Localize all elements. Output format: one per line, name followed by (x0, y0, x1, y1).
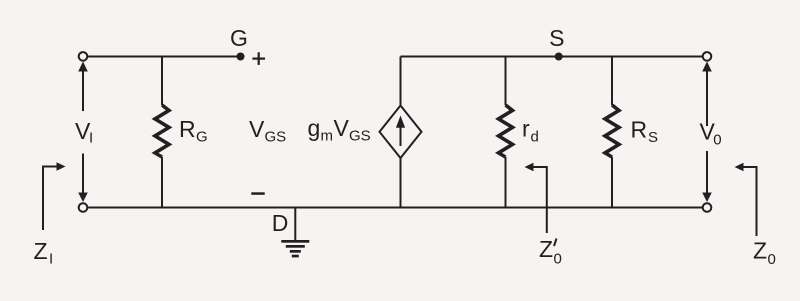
terminal output bottom (703, 203, 712, 212)
svg-text:V: V (249, 116, 265, 142)
label R_G (179, 116, 208, 146)
minus sign (251, 192, 264, 195)
plus sign (252, 52, 265, 65)
V_I arrow upper shaft (82, 70, 84, 111)
label V_I (75, 118, 93, 147)
svg-text:Z: Z (34, 238, 48, 264)
current source diamond gmVGS (380, 106, 422, 159)
terminal input top (79, 52, 88, 61)
wire top-left rail (gate) (83, 56, 241, 58)
V_I arrow lower shaft (82, 154, 84, 195)
wire R_G bottom stub (161, 157, 163, 208)
V_I arrow down head (78, 193, 88, 203)
svg-text:R: R (179, 116, 196, 142)
V_0 arrow upper shaft (706, 70, 708, 126)
label V_GS (249, 116, 286, 146)
svg-text:0: 0 (554, 251, 562, 268)
wire ground stem (294, 208, 296, 242)
svg-text:0: 0 (713, 132, 721, 149)
svg-text:r: r (522, 116, 530, 142)
svg-text:GS: GS (349, 128, 371, 145)
svg-text:V: V (334, 115, 350, 141)
resistor RS zigzag (605, 105, 619, 157)
svg-text:R: R (631, 117, 648, 143)
wire r_d top stub (505, 57, 507, 106)
label Z_I (34, 238, 54, 268)
svg-text:D: D (272, 210, 289, 236)
wire R_G top stub (161, 57, 163, 106)
wire R_S bottom stub (611, 157, 613, 208)
svg-text:0: 0 (768, 251, 776, 268)
wire top-right rail (source) (401, 56, 704, 58)
Z_I probe arrow (43, 162, 66, 230)
node G dot (237, 53, 245, 61)
wire r_d bottom stub (505, 157, 507, 208)
V_I arrow up head (78, 62, 88, 72)
wire R_S top stub (611, 57, 613, 106)
V_0 arrow up head (702, 62, 712, 72)
Z_0 probe arrow (735, 163, 757, 236)
wire bottom rail (drain/common) (83, 207, 703, 209)
label g_m V_GS (308, 115, 371, 145)
svg-text:I: I (89, 130, 93, 147)
current source arrow (396, 116, 405, 147)
svg-text:m: m (321, 128, 334, 145)
label Z'_0 (539, 236, 562, 268)
node S dot (555, 53, 563, 61)
Z'_0 probe arrow (525, 163, 547, 233)
svg-text:I: I (49, 251, 53, 268)
svg-text:g: g (308, 115, 321, 141)
svg-text:Z: Z (539, 236, 553, 262)
label R_S (631, 117, 659, 147)
resistor RG zigzag (155, 105, 169, 157)
svg-text:G: G (196, 129, 208, 146)
label Z_0 (753, 238, 776, 269)
svg-text:GS: GS (265, 129, 287, 146)
wire current source top stub (400, 57, 402, 106)
terminal output top (703, 52, 712, 61)
svg-text:G: G (230, 25, 248, 51)
svg-text:Z: Z (753, 238, 767, 264)
label V_0 (700, 119, 722, 149)
terminal input bottom (79, 203, 88, 212)
V_0 arrow down head (702, 193, 712, 203)
svg-text:S: S (549, 25, 564, 51)
svg-text:d: d (531, 129, 539, 146)
wire current source bottom stub (400, 158, 402, 208)
label r_d (522, 116, 539, 146)
ground symbol (281, 240, 309, 257)
V_0 arrow lower shaft (706, 151, 708, 194)
resistor rd zigzag (499, 105, 513, 157)
svg-text:S: S (648, 129, 658, 146)
